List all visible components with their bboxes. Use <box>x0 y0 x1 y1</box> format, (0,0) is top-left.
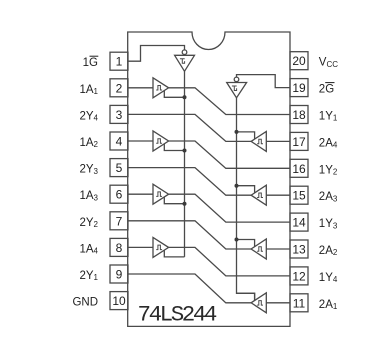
svg-text:74LS244: 74LS244 <box>138 302 217 328</box>
svg-text:18: 18 <box>292 108 306 122</box>
svg-text:14: 14 <box>292 216 306 230</box>
svg-text:8: 8 <box>116 241 123 255</box>
svg-text:11: 11 <box>293 296 306 310</box>
svg-text:16: 16 <box>292 162 306 176</box>
svg-text:2G: 2G <box>319 84 334 96</box>
svg-text:6: 6 <box>116 188 123 202</box>
svg-text:1G: 1G <box>83 57 98 69</box>
svg-text:1: 1 <box>116 55 123 69</box>
svg-text:13: 13 <box>292 243 306 257</box>
svg-text:17: 17 <box>292 135 306 149</box>
svg-text:9: 9 <box>116 268 123 282</box>
svg-text:10: 10 <box>112 294 126 308</box>
svg-text:20: 20 <box>292 54 306 68</box>
svg-text:7: 7 <box>116 214 123 228</box>
svg-text:15: 15 <box>292 189 306 203</box>
svg-text:2: 2 <box>116 81 123 95</box>
svg-text:12: 12 <box>292 269 306 283</box>
svg-text:19: 19 <box>292 81 306 95</box>
svg-text:4: 4 <box>116 135 123 149</box>
svg-text:3: 3 <box>116 108 123 122</box>
svg-text:GND: GND <box>72 297 98 309</box>
svg-text:5: 5 <box>116 161 123 175</box>
